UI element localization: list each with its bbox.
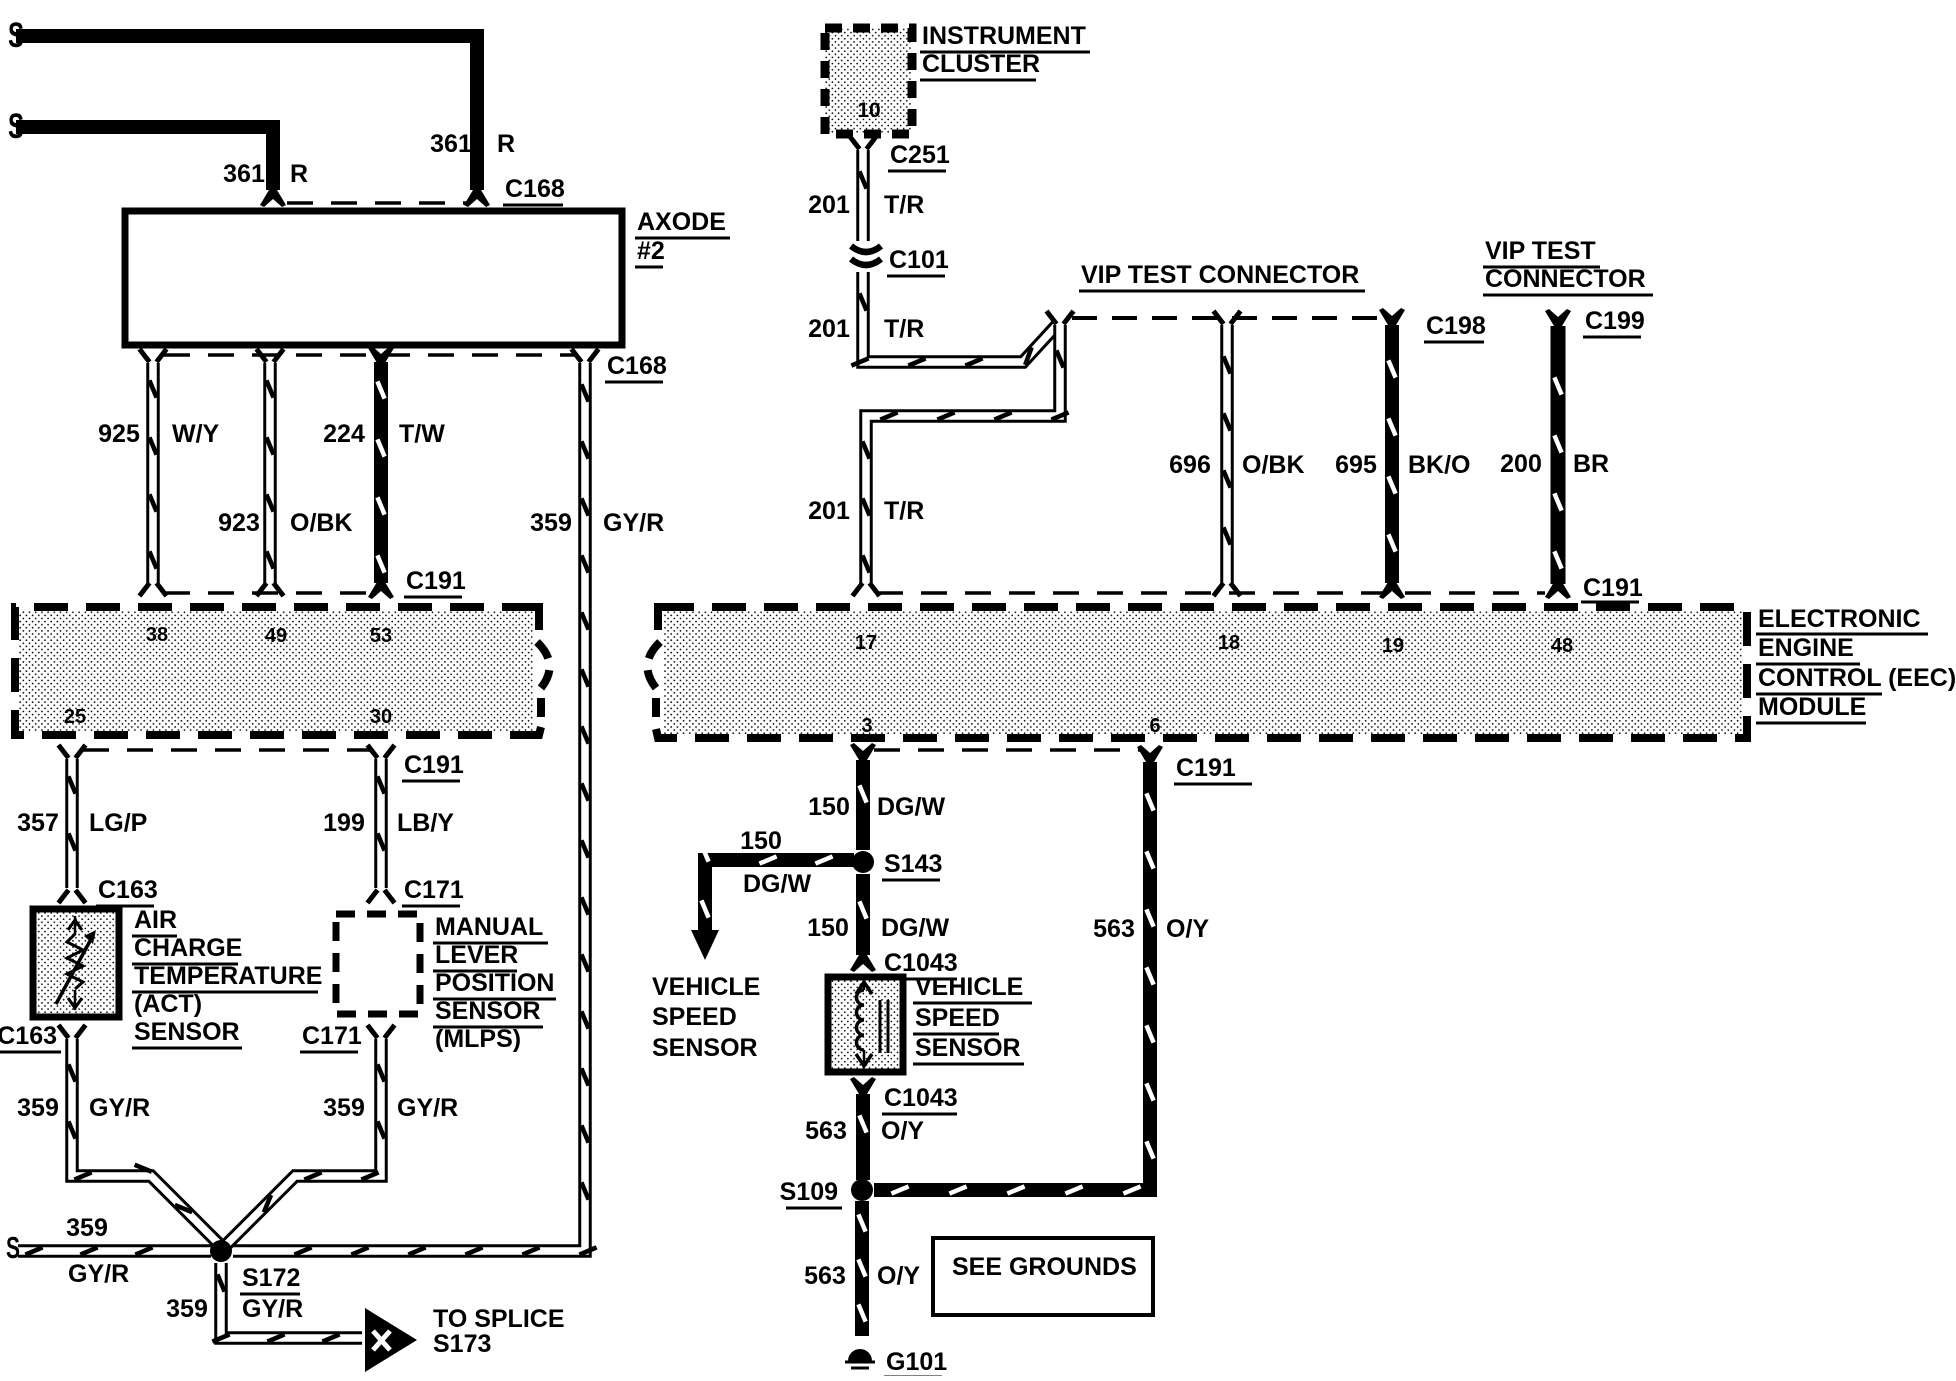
svg-text:S: S	[8, 16, 24, 55]
svg-text:925: 925	[98, 420, 140, 448]
svg-text:VIP TEST: VIP TEST	[1485, 237, 1596, 265]
svg-text:R: R	[290, 160, 308, 188]
svg-text:201: 201	[808, 191, 850, 219]
svg-text:C163: C163	[0, 1022, 57, 1050]
svg-text:201: 201	[808, 497, 850, 525]
svg-text:18: 18	[1218, 632, 1240, 654]
svg-text:359: 359	[166, 1295, 208, 1323]
svg-text:VEHICLE: VEHICLE	[915, 973, 1023, 1001]
svg-text:C251: C251	[890, 141, 950, 169]
svg-text:S: S	[6, 1230, 20, 1265]
svg-text:DG/W: DG/W	[881, 914, 949, 942]
svg-text:GY/R: GY/R	[89, 1094, 150, 1122]
svg-text:563: 563	[805, 1117, 847, 1145]
svg-text:GY/R: GY/R	[68, 1260, 129, 1288]
svg-text:ELECTRONIC: ELECTRONIC	[1758, 605, 1921, 633]
svg-text:CHARGE: CHARGE	[134, 934, 242, 962]
svg-text:GY/R: GY/R	[397, 1094, 458, 1122]
svg-text:10: 10	[857, 99, 880, 122]
svg-text:SPEED: SPEED	[652, 1003, 737, 1031]
svg-text:O/Y: O/Y	[877, 1262, 920, 1290]
svg-text:224: 224	[323, 420, 365, 448]
svg-text:T/R: T/R	[884, 497, 924, 525]
svg-text:(ACT): (ACT)	[134, 990, 202, 1018]
svg-text:DG/W: DG/W	[877, 793, 945, 821]
svg-text:53: 53	[370, 625, 392, 647]
svg-text:CLUSTER: CLUSTER	[922, 50, 1040, 78]
svg-text:CONTROL (EEC): CONTROL (EEC)	[1758, 664, 1956, 692]
svg-text:DG/W: DG/W	[743, 870, 811, 898]
svg-text:VEHICLE: VEHICLE	[652, 973, 760, 1001]
svg-text:W/Y: W/Y	[172, 420, 220, 448]
svg-text:C199: C199	[1585, 307, 1645, 335]
svg-text:695: 695	[1335, 451, 1377, 479]
svg-text:MODULE: MODULE	[1758, 693, 1866, 721]
svg-text:ENGINE: ENGINE	[1758, 634, 1854, 662]
svg-text:359: 359	[17, 1094, 59, 1122]
svg-text:O/BK: O/BK	[1242, 451, 1305, 479]
svg-text:200: 200	[1500, 450, 1542, 478]
svg-text:R: R	[497, 130, 515, 158]
svg-text:563: 563	[1093, 915, 1135, 943]
svg-text:S172: S172	[242, 1264, 300, 1292]
svg-text:AIR: AIR	[134, 906, 177, 934]
svg-text:359: 359	[323, 1094, 365, 1122]
svg-text:38: 38	[146, 624, 168, 646]
svg-text:C171: C171	[302, 1022, 362, 1050]
svg-text:GY/R: GY/R	[242, 1295, 303, 1323]
svg-text:LB/Y: LB/Y	[397, 809, 454, 837]
svg-text:25: 25	[64, 706, 86, 728]
svg-text:359: 359	[66, 1214, 108, 1242]
svg-text:C191: C191	[1583, 574, 1643, 602]
svg-text:#2: #2	[637, 237, 665, 265]
svg-text:6: 6	[1149, 715, 1160, 737]
svg-text:GY/R: GY/R	[603, 509, 664, 537]
svg-text:C191: C191	[404, 751, 464, 779]
svg-text:(MLPS): (MLPS)	[435, 1025, 521, 1053]
svg-text:C163: C163	[98, 876, 158, 904]
svg-text:19: 19	[1382, 635, 1404, 657]
svg-text:BK/O: BK/O	[1408, 451, 1471, 479]
svg-text:LG/P: LG/P	[89, 809, 147, 837]
svg-text:C171: C171	[404, 876, 464, 904]
svg-text:201: 201	[808, 315, 850, 343]
svg-text:361: 361	[430, 130, 472, 158]
svg-text:SEE GROUNDS: SEE GROUNDS	[952, 1253, 1137, 1281]
svg-text:CONNECTOR: CONNECTOR	[1485, 265, 1646, 293]
svg-text:C1043: C1043	[884, 1084, 958, 1112]
svg-text:SENSOR: SENSOR	[134, 1018, 240, 1046]
svg-text:VIP TEST CONNECTOR: VIP TEST CONNECTOR	[1081, 261, 1359, 289]
svg-text:150: 150	[807, 914, 849, 942]
svg-text:SENSOR: SENSOR	[435, 997, 541, 1025]
svg-text:SENSOR: SENSOR	[652, 1034, 758, 1062]
svg-text:48: 48	[1551, 635, 1573, 657]
svg-text:199: 199	[323, 809, 365, 837]
svg-text:S: S	[8, 107, 24, 146]
svg-text:S173: S173	[433, 1330, 491, 1358]
svg-text:17: 17	[855, 632, 877, 654]
svg-text:696: 696	[1169, 451, 1211, 479]
svg-text:C191: C191	[1176, 754, 1236, 782]
svg-text:T/R: T/R	[884, 191, 924, 219]
svg-text:49: 49	[265, 625, 287, 647]
svg-text:LEVER: LEVER	[435, 941, 518, 969]
svg-text:C198: C198	[1426, 312, 1486, 340]
svg-text:563: 563	[804, 1262, 846, 1290]
svg-text:357: 357	[17, 809, 59, 837]
svg-text:150: 150	[808, 793, 850, 821]
svg-text:O/BK: O/BK	[290, 509, 353, 537]
svg-text:AXODE: AXODE	[637, 208, 726, 236]
svg-text:POSITION: POSITION	[435, 969, 554, 997]
svg-text:C168: C168	[505, 175, 565, 203]
svg-text:C191: C191	[406, 567, 466, 595]
svg-text:T/R: T/R	[884, 315, 924, 343]
svg-text:923: 923	[218, 509, 260, 537]
svg-text:S109: S109	[780, 1178, 838, 1206]
svg-text:SPEED: SPEED	[915, 1004, 1000, 1032]
svg-text:361: 361	[223, 160, 265, 188]
svg-text:C101: C101	[889, 246, 949, 274]
svg-text:G101: G101	[886, 1348, 947, 1376]
svg-text:TEMPERATURE: TEMPERATURE	[134, 962, 322, 990]
svg-text:BR: BR	[1573, 450, 1609, 478]
svg-text:INSTRUMENT: INSTRUMENT	[922, 22, 1086, 50]
svg-text:150: 150	[740, 827, 782, 855]
svg-text:3: 3	[861, 715, 872, 737]
svg-text:O/Y: O/Y	[1166, 915, 1209, 943]
svg-text:C168: C168	[607, 352, 667, 380]
svg-text:SENSOR: SENSOR	[915, 1034, 1021, 1062]
svg-text:TO SPLICE: TO SPLICE	[433, 1305, 565, 1333]
svg-text:O/Y: O/Y	[881, 1117, 924, 1145]
svg-text:359: 359	[530, 509, 572, 537]
svg-text:MANUAL: MANUAL	[435, 913, 543, 941]
svg-text:T/W: T/W	[399, 420, 445, 448]
svg-text:30: 30	[370, 706, 392, 728]
svg-text:S143: S143	[884, 850, 942, 878]
